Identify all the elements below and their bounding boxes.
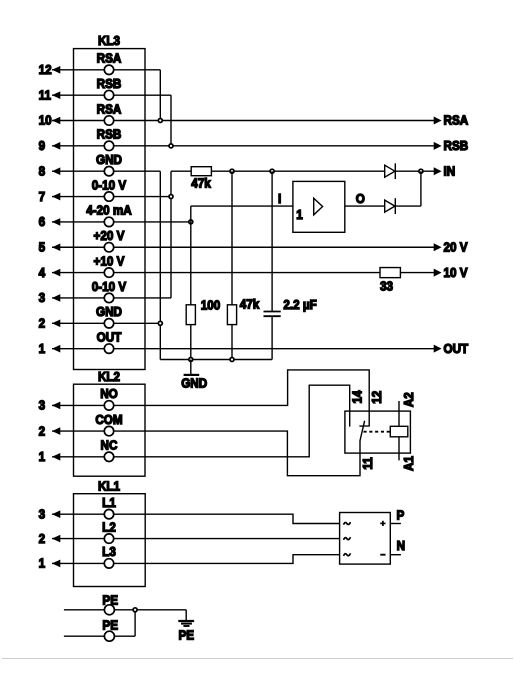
KL3 pin 3 number xyxy=(39,291,46,306)
svg-text:8: 8 xyxy=(39,164,46,179)
wire KL3-10 RSA out xyxy=(52,120,435,122)
svg-text:2.2 µF: 2.2 µF xyxy=(283,298,317,313)
svg-text:47k: 47k xyxy=(191,176,211,191)
wire PE terminal 2 xyxy=(64,610,135,636)
value label 47k xyxy=(240,297,260,312)
svg-text:COM: COM xyxy=(95,412,122,427)
KL3 pin 12 number xyxy=(39,62,52,77)
KL3 pin 8 number xyxy=(39,164,46,179)
svg-text:L1: L1 xyxy=(102,495,116,510)
svg-text:IN: IN xyxy=(444,164,456,179)
KL1 pin 2 left arrow xyxy=(52,535,60,543)
wire KL3-4 +10V to resistor 33 xyxy=(52,272,380,274)
KL3 pin 6 number xyxy=(39,215,46,230)
svg-text:OUT: OUT xyxy=(444,341,469,356)
svg-text:2: 2 xyxy=(39,531,46,546)
terminal KL3 +20 V xyxy=(94,228,126,251)
wire D2 up to IN xyxy=(395,171,421,206)
KL1 pin 3 left arrow xyxy=(52,510,60,518)
KL3 pin 7 left arrow xyxy=(52,193,60,201)
terminal KL3 GND xyxy=(96,305,122,328)
svg-text:O: O xyxy=(356,192,365,207)
terminal block KL3 box xyxy=(74,49,146,370)
svg-text:P: P xyxy=(396,508,404,523)
relay K1 outline box xyxy=(345,411,411,453)
KL3 pin 9 number xyxy=(39,138,46,153)
svg-text:5: 5 xyxy=(39,240,46,255)
label GND xyxy=(181,376,207,391)
wire KL3-11 RSB to link lane xyxy=(52,95,171,146)
terminal KL3 RSB xyxy=(97,76,122,99)
node IN arrow+label xyxy=(434,164,456,179)
KL3 pin 11 number xyxy=(39,88,51,103)
wire KL3-9 RSB out xyxy=(52,145,435,147)
wire coil terminal A1 xyxy=(398,437,400,461)
KL3 pin 9 left arrow xyxy=(52,142,60,150)
wire N output xyxy=(390,554,401,556)
KL3 pin 12 left arrow xyxy=(52,66,60,74)
rectifier plus sign xyxy=(380,521,385,526)
KL1 pin 2 number xyxy=(39,531,46,546)
rectifier minus sign xyxy=(380,554,385,556)
wire buffer output xyxy=(345,205,385,207)
svg-text:0-10 V: 0-10 V xyxy=(92,178,127,193)
svg-text:10 V: 10 V xyxy=(444,265,469,280)
relay contact armature xyxy=(360,421,365,441)
terminal PE 2 xyxy=(102,618,118,641)
KL3 pin 3 left arrow xyxy=(52,294,60,302)
terminal KL2 NC xyxy=(101,438,118,461)
wire KL3-3 0-10V to lane xyxy=(52,297,171,299)
svg-text:7: 7 xyxy=(39,189,46,204)
terminal KL3 0-10 V xyxy=(92,279,127,302)
terminal KL2 NO xyxy=(100,387,118,410)
label N xyxy=(397,539,406,554)
resistor 33 xyxy=(380,268,400,278)
label P xyxy=(396,508,404,523)
wire KL3-6 4-20mA xyxy=(52,221,191,223)
KL3 pin 1 number xyxy=(39,341,46,356)
svg-text:1: 1 xyxy=(296,207,303,222)
svg-text:A1: A1 xyxy=(402,456,417,471)
wire buffer input lane xyxy=(191,206,293,305)
terminal block KL1 box xyxy=(74,494,146,587)
terminal KL1 L2 xyxy=(102,520,116,543)
KL3 pin 4 number xyxy=(39,265,46,280)
junction rail at 100 xyxy=(189,358,193,362)
terminal KL3 RSB xyxy=(97,127,122,150)
svg-text:RSB: RSB xyxy=(97,76,122,91)
svg-text:PE: PE xyxy=(178,628,194,643)
junction 0-10V lane xyxy=(169,195,173,199)
terminal KL3 +10 V xyxy=(94,254,126,277)
rectifier AC input tilde xyxy=(344,553,351,556)
svg-text:4-20 mA: 4-20 mA xyxy=(86,203,132,218)
svg-text:12: 12 xyxy=(369,391,384,404)
junction PE xyxy=(133,608,137,612)
relay coil K1 xyxy=(390,426,408,437)
ground GND symbol xyxy=(184,360,200,375)
pin label A1 xyxy=(402,456,417,471)
wire cap bottom to rail xyxy=(271,317,273,360)
node OUT arrow+label xyxy=(434,341,469,356)
junction rail at 47k-2 xyxy=(230,358,234,362)
wire IN net xyxy=(211,170,384,172)
svg-text:KL3: KL3 xyxy=(98,33,120,48)
relay actuation dashed link xyxy=(364,431,391,433)
wire KL2-3 NO to relay 12 xyxy=(52,370,369,426)
terminal KL3 0-10 V xyxy=(92,178,127,201)
terminal block KL1 label xyxy=(98,479,120,494)
KL3 pin 5 number xyxy=(39,240,46,255)
junction RSA link xyxy=(158,119,162,123)
svg-text:N: N xyxy=(397,539,406,554)
terminal KL1 L3 xyxy=(102,545,116,568)
svg-text:GND: GND xyxy=(181,376,207,391)
wire KL3-8 GND down to rail xyxy=(52,171,160,359)
KL3 pin 11 left arrow xyxy=(52,91,60,99)
ground earth symbol PE xyxy=(178,610,194,626)
svg-text:11: 11 xyxy=(360,457,375,469)
svg-text:1: 1 xyxy=(39,341,46,356)
KL2 pin 1 left arrow xyxy=(52,453,60,461)
KL1 pin 3 number xyxy=(39,507,46,522)
wire PE terminal 1 xyxy=(64,609,186,611)
KL3 pin 6 left arrow xyxy=(52,218,60,226)
svg-text:KL2: KL2 xyxy=(98,369,120,384)
svg-text:47k: 47k xyxy=(240,297,260,312)
KL3 pin 1 left arrow xyxy=(52,345,60,353)
label O (buffer output) xyxy=(356,192,365,207)
svg-text:NC: NC xyxy=(101,438,118,453)
junction IN net at 47k-2 xyxy=(230,169,234,173)
junction 4-20mA xyxy=(189,220,193,224)
svg-text:2: 2 xyxy=(39,424,46,439)
KL3 pin 5 left arrow xyxy=(52,243,60,251)
wire 0-10V lane vertical xyxy=(170,171,172,298)
svg-text:RSA: RSA xyxy=(444,113,469,128)
svg-text:RSA: RSA xyxy=(97,102,122,117)
svg-text:RSA: RSA xyxy=(97,51,122,66)
wire 47k-1 left lead xyxy=(171,170,191,172)
label PE at ground xyxy=(178,628,194,643)
KL3 pin 2 left arrow xyxy=(52,320,60,328)
node 10V arrow+label xyxy=(434,265,469,280)
svg-text:4: 4 xyxy=(39,265,46,280)
svg-text:RSB: RSB xyxy=(444,138,469,153)
svg-text:9: 9 xyxy=(39,138,46,153)
terminal KL3 RSA xyxy=(97,102,122,125)
junction IN net at cap xyxy=(270,169,274,173)
svg-text:+20 V: +20 V xyxy=(94,228,126,243)
svg-text:3: 3 xyxy=(39,398,46,413)
svg-text:PE: PE xyxy=(102,618,118,633)
terminal KL3 GND xyxy=(96,152,122,175)
wire KL3-7 0-10V xyxy=(52,196,171,198)
svg-text:RSB: RSB xyxy=(97,127,122,142)
wire KL1-1 L3 to rectifier xyxy=(52,555,340,564)
svg-text:6: 6 xyxy=(39,215,46,230)
wire D1 to IN arrow xyxy=(395,170,434,172)
svg-text:0-10 V: 0-10 V xyxy=(92,279,127,294)
junction GND KL3-2 xyxy=(158,321,162,325)
svg-text:L2: L2 xyxy=(102,520,116,535)
terminal KL3 4-20 mA xyxy=(86,203,132,226)
value label 100 xyxy=(201,298,221,313)
op-amp buffer U1 xyxy=(293,181,345,232)
svg-text:PE: PE xyxy=(102,593,118,608)
wire 100 bottom to rail xyxy=(190,325,192,360)
KL3 pin 10 left arrow xyxy=(52,117,60,125)
wire KL3-12 RSA to link lane xyxy=(52,70,160,121)
KL1 pin 1 number xyxy=(39,556,46,571)
svg-text:I: I xyxy=(278,192,281,207)
wire KL3-2 GND xyxy=(52,322,160,324)
KL3 pin 4 left arrow xyxy=(52,269,60,277)
svg-text:1: 1 xyxy=(39,556,46,571)
wire 47k-2 lane vertical xyxy=(231,171,233,305)
resistor 100 xyxy=(186,305,195,325)
pin label A2 xyxy=(402,392,417,407)
wire GND rail xyxy=(160,359,272,361)
node 20V arrow+label xyxy=(434,240,469,255)
value label 2.2 uF xyxy=(283,298,317,313)
svg-text:3: 3 xyxy=(39,507,46,522)
KL2 pin 3 left arrow xyxy=(52,402,60,410)
terminal KL2 COM xyxy=(95,412,122,435)
KL2 pin 2 left arrow xyxy=(52,427,60,435)
svg-text:GND: GND xyxy=(96,152,122,167)
KL3 pin 7 number xyxy=(39,189,46,204)
wire KL1-3 L1 to rectifier xyxy=(52,514,340,523)
separator line (decorative) xyxy=(2,658,513,660)
svg-text:A2: A2 xyxy=(402,392,417,407)
svg-text:+10 V: +10 V xyxy=(94,254,126,269)
rectifier AC input tilde xyxy=(344,522,351,525)
KL1 pin 1 left arrow xyxy=(52,560,60,568)
junction IN at D2 join xyxy=(419,169,423,173)
diode D1 xyxy=(385,163,396,179)
terminal KL3 RSA xyxy=(97,51,122,74)
svg-text:33: 33 xyxy=(380,279,393,294)
wire KL3-5 +20V out xyxy=(52,246,435,248)
wire KL3-1 OUT xyxy=(52,348,435,350)
svg-text:2: 2 xyxy=(39,316,46,331)
svg-text:L3: L3 xyxy=(102,545,116,560)
svg-text:GND: GND xyxy=(96,305,122,320)
wire 47k-2 bottom to rail xyxy=(231,325,233,360)
terminal KL1 L1 xyxy=(102,495,116,518)
buffer pin label 1 xyxy=(296,207,303,222)
svg-text:KL1: KL1 xyxy=(98,479,120,494)
wire P output xyxy=(390,523,401,525)
wire KL2-2 COM to relay 11 xyxy=(52,431,360,476)
svg-text:12: 12 xyxy=(39,62,52,77)
junction RSB link xyxy=(169,144,173,148)
value label 33 xyxy=(380,279,393,294)
terminal block KL2 label xyxy=(98,369,120,384)
terminal KL3 OUT xyxy=(97,330,122,353)
label I (buffer input) xyxy=(278,192,281,207)
rectifier bridge box xyxy=(340,513,391,565)
node RSB arrow+label xyxy=(434,138,469,153)
svg-text:NO: NO xyxy=(100,387,118,402)
svg-text:11: 11 xyxy=(39,88,51,103)
capacitor C1 2.2uF xyxy=(264,312,281,317)
wire cap lane vertical xyxy=(271,171,273,311)
pin label 12 xyxy=(369,391,384,404)
KL3 pin 2 number xyxy=(39,316,46,331)
svg-text:OUT: OUT xyxy=(97,330,122,345)
svg-text:14: 14 xyxy=(350,390,365,403)
svg-text:3: 3 xyxy=(39,291,46,306)
KL2 pin 3 number xyxy=(39,398,46,413)
svg-text:100: 100 xyxy=(201,298,221,313)
KL2 pin 2 number xyxy=(39,424,46,439)
svg-text:10: 10 xyxy=(39,113,52,128)
pin label 11 xyxy=(360,457,375,469)
pin label 14 xyxy=(350,390,365,403)
svg-text:20 V: 20 V xyxy=(444,240,469,255)
terminal block KL3 label xyxy=(98,33,120,48)
wire 33 to 10V arrow xyxy=(400,272,434,274)
diode D2 xyxy=(385,198,396,214)
wire KL1-2 L2 to rectifier xyxy=(52,538,340,540)
terminal PE 1 xyxy=(102,593,118,615)
resistor 47k horizontal xyxy=(191,167,211,176)
resistor 47k vertical xyxy=(227,305,236,325)
terminal block KL2 box xyxy=(74,384,146,476)
node RSA arrow+label xyxy=(434,113,469,128)
KL3 pin 8 left arrow xyxy=(52,167,60,175)
value label 47k xyxy=(191,176,211,191)
svg-text:1: 1 xyxy=(39,449,46,464)
KL3 pin 10 number xyxy=(39,113,52,128)
KL2 pin 1 number xyxy=(39,449,46,464)
rectifier AC input tilde xyxy=(344,537,351,540)
wire coil terminal A2 xyxy=(398,401,400,426)
wire KL2-1 NC to relay 14 xyxy=(52,385,350,457)
